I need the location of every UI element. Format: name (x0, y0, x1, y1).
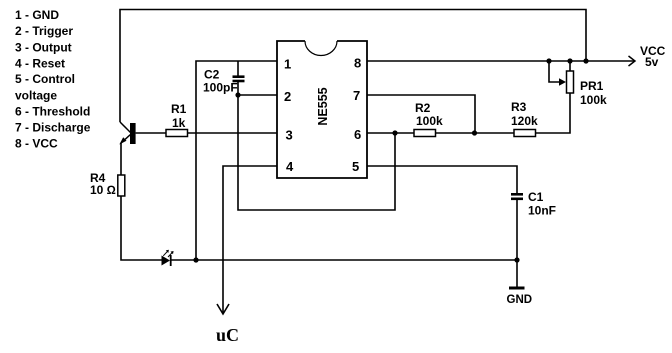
svg-text:GND: GND (507, 294, 533, 306)
svg-text:100pF: 100pF (203, 81, 238, 95)
wire: pin 1 (GND) left and down to bottom rail (196, 61, 277, 260)
svg-text:8 - VCC: 8 - VCC (15, 137, 58, 151)
wire: pin 2 (Trigger) stub (238, 94, 277, 96)
ground symbol (509, 287, 525, 290)
svg-text:C2: C2 (204, 68, 220, 82)
wire: pin 7 (Discharge) stub and drop to pin6 line (367, 95, 475, 133)
svg-text:C1: C1 (528, 190, 544, 204)
svg-text:5v: 5v (645, 55, 659, 69)
svg-text:uC: uC (216, 325, 239, 345)
resistor R2 body (414, 130, 436, 137)
uC open arrowhead (217, 304, 229, 314)
svg-text:7: 7 (353, 88, 360, 103)
node: VCC/top rail junction (583, 58, 588, 63)
wire: C2 bottom lead down to pin2 node (237, 82, 239, 95)
wire: C1 down through bottom rail to GND (516, 200, 518, 287)
svg-text:R2: R2 (415, 101, 431, 115)
svg-text:R1: R1 (171, 102, 187, 116)
capacitor C1 (511, 194, 523, 199)
svg-text:8: 8 (354, 56, 361, 71)
svg-text:NE555: NE555 (316, 87, 330, 125)
svg-text:4 - Reset: 4 - Reset (15, 57, 65, 71)
svg-text:1: 1 (284, 57, 291, 72)
wire: pin 6 line to R2 (367, 132, 414, 134)
wire: R2 to R3 (436, 132, 515, 134)
svg-text:1 - GND: 1 - GND (15, 8, 59, 22)
node: VCC/PR1 top junction (567, 58, 572, 63)
svg-text:6 - Threshold: 6 - Threshold (15, 105, 90, 119)
svg-text:10nF: 10nF (528, 204, 556, 218)
node: junction at pin2/C2 (235, 92, 240, 97)
svg-text:R3: R3 (511, 100, 527, 114)
node: VCC/wiper junction (546, 58, 551, 63)
svg-text:voltage: voltage (15, 89, 57, 103)
PR1 wiper wire (549, 61, 560, 82)
wire: pin 5 (Control) stub right and down to C1 (367, 166, 517, 193)
svg-text:3: 3 (286, 128, 293, 143)
wire: pin 4 (Reset) stub and down to uC arrow (223, 166, 277, 313)
wire: emitter down to R4 (120, 143, 122, 175)
PR1 top lead (569, 61, 571, 71)
transistor Q1 emitter diagonal (121, 135, 131, 144)
svg-text:100k: 100k (416, 114, 443, 128)
transistor Q1 base bar (130, 123, 136, 144)
transistor Q1 collector diagonal (120, 122, 131, 133)
VCC open arrowhead (629, 56, 636, 66)
IC notch (305, 41, 337, 56)
svg-text:7 - Discharge: 7 - Discharge (15, 121, 91, 135)
svg-text:1k: 1k (172, 116, 186, 130)
LED emission arrow 1 (163, 250, 169, 256)
LED emission arrow 2 (168, 251, 174, 257)
svg-text:2: 2 (284, 89, 291, 104)
resistor R3 body (514, 130, 536, 137)
svg-text:10 Ω: 10 Ω (90, 183, 116, 197)
node: junction pin7 drop (472, 130, 477, 135)
wire: C2 top lead (237, 61, 239, 76)
wire: pin2 to pin6 connecting loop (238, 95, 395, 210)
node: bottom rail / GND junction (514, 257, 519, 262)
wire: pin 8 (VCC) line to arrow (367, 60, 634, 62)
resistor R1 body (166, 130, 188, 137)
transistor Q1 emitter arrowhead (119, 137, 126, 144)
svg-text:4: 4 (286, 159, 294, 174)
LED D1 triangle (162, 256, 171, 266)
potentiometer PR1 body (567, 71, 574, 93)
svg-text:5 - Control: 5 - Control (15, 72, 75, 86)
wire: R3 right to PR1 bottom lead (536, 93, 571, 133)
wire: R4 down and bottom rail left segment to LED (121, 196, 162, 260)
svg-text:6: 6 (354, 127, 361, 142)
svg-text:5: 5 (352, 159, 359, 174)
PR1 wiper arrowhead (559, 78, 566, 86)
capacitor C2 (233, 77, 245, 81)
wire: bottom rail from LED to GND drop (171, 259, 517, 261)
svg-text:2 - Trigger: 2 - Trigger (15, 24, 73, 38)
wire: R1 to pin 3 (Output) (188, 132, 278, 134)
LED D1 cathode bar (170, 255, 172, 266)
op-amp/timer IC U1 NE555 body (277, 41, 367, 178)
svg-text:100k: 100k (580, 93, 607, 107)
svg-text:120k: 120k (511, 114, 538, 128)
resistor R4 body (118, 175, 125, 196)
node: junction bottom rail / pin1 drop (193, 257, 198, 262)
svg-text:PR1: PR1 (580, 79, 604, 93)
wire: base to R1 (136, 132, 166, 134)
svg-text:3 - Output: 3 - Output (15, 41, 72, 55)
pin legend text (15, 8, 91, 151)
wire: top rail from transistor collector up, across, down to VCC line (120, 10, 586, 123)
node: junction pin6 / loop (392, 130, 397, 135)
